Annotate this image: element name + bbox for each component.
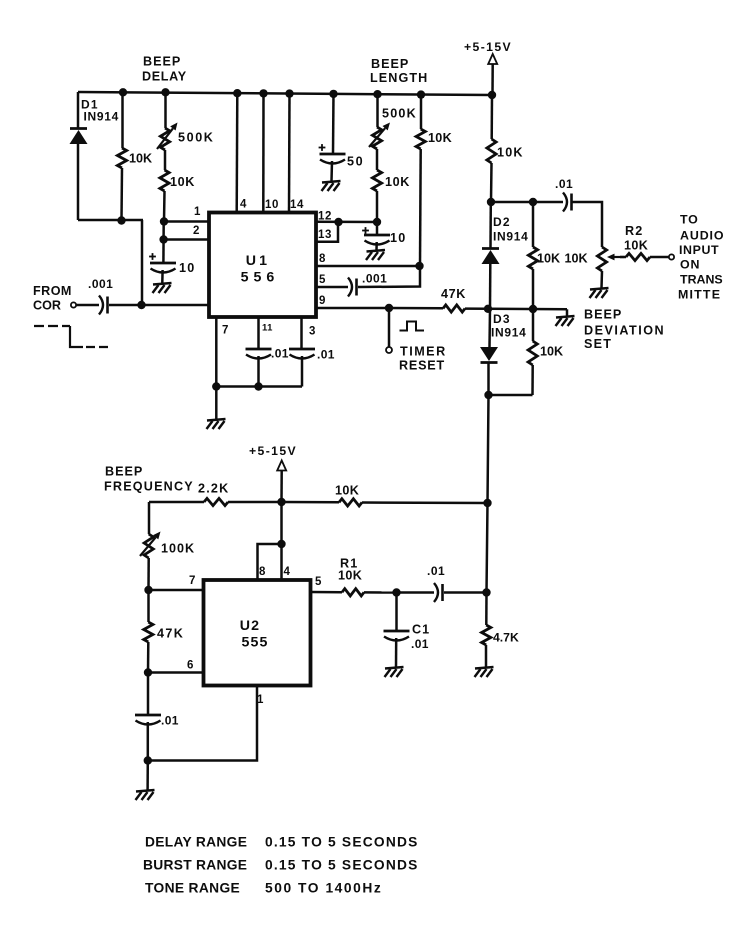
label pin 5 (U1) bbox=[319, 274, 326, 286]
label 2.2K bbox=[198, 482, 229, 496]
label 500K (delay) bbox=[178, 131, 215, 145]
svg-text:TRANS: TRANS bbox=[680, 273, 723, 287]
label 47K (U2) bbox=[157, 627, 184, 641]
label .001 (COR) bbox=[88, 277, 113, 291]
wire .01 pin3 to bus bbox=[301, 356, 304, 387]
capacitor 50uF bbox=[319, 144, 346, 163]
svg-text:C1: C1 bbox=[412, 623, 430, 637]
svg-text:555: 555 bbox=[241, 635, 268, 651]
svg-text:0.15 TO 5 SECONDS: 0.15 TO 5 SECONDS bbox=[265, 858, 419, 873]
wire timer reset stub bbox=[388, 308, 391, 347]
resistor 10K (from +5V) bbox=[487, 95, 496, 202]
potentiometer 500K (beep length) bbox=[369, 94, 390, 149]
wire cap to ground bbox=[161, 270, 164, 283]
label pin 5 (U2) bbox=[315, 576, 322, 588]
label TIMER bbox=[400, 345, 447, 359]
note DELAY RANGE bbox=[145, 835, 419, 850]
junction dot pin8 node bbox=[415, 262, 423, 270]
svg-text:DELAY RANGE: DELAY RANGE bbox=[145, 835, 247, 850]
capacitor .01 (pin 3) bbox=[289, 349, 315, 359]
junction dot divider bottom bbox=[529, 305, 537, 313]
label .01 (deviation) bbox=[555, 177, 573, 191]
junction dot pin1 node (U2) bbox=[144, 756, 152, 764]
wire pin 11 (U1) bbox=[257, 317, 260, 349]
svg-text:1: 1 bbox=[194, 206, 201, 218]
label 47K (pin9) bbox=[441, 287, 466, 301]
wire node B ground stub bbox=[566, 309, 569, 316]
svg-text:AUDIO: AUDIO bbox=[680, 229, 724, 243]
svg-text:2: 2 bbox=[193, 225, 199, 237]
ground (under 10uF right) bbox=[366, 250, 385, 260]
junction dot rail-10K right bbox=[417, 90, 425, 98]
svg-text:FREQUENCY: FREQUENCY bbox=[104, 480, 194, 494]
wire pin 1 bbox=[164, 220, 209, 223]
wire 100K to pin7 node bbox=[147, 558, 150, 590]
capacitor .001 (COR input) bbox=[99, 296, 108, 315]
ground (C1) bbox=[385, 667, 404, 677]
svg-text:11: 11 bbox=[262, 323, 273, 334]
terminal timer reset bbox=[386, 347, 392, 353]
wire main vertical bus bbox=[487, 395, 489, 593]
svg-text:MITTE: MITTE bbox=[678, 288, 721, 302]
resistor 47K (U2) bbox=[144, 590, 153, 673]
terminal to transmitter bbox=[669, 254, 674, 259]
wire node A to 10K pair bbox=[491, 201, 533, 204]
diode D1 bbox=[70, 92, 88, 220]
svg-text:10K: 10K bbox=[338, 569, 362, 583]
label pin 7 (U1) bbox=[222, 325, 228, 337]
svg-text:47K: 47K bbox=[441, 287, 466, 301]
capacitor 10uF (U1 right) bbox=[362, 227, 390, 244]
svg-text:10K: 10K bbox=[170, 175, 195, 189]
junction dot pin9-reset bbox=[385, 304, 393, 312]
potentiometer 500K (beep delay) bbox=[157, 92, 178, 150]
label pin 2 (U1) bbox=[193, 225, 199, 237]
wire node to 10uF (right) bbox=[376, 222, 379, 235]
junction dot pin1 node bbox=[160, 217, 168, 225]
svg-text:10K: 10K bbox=[497, 146, 524, 160]
resistor 10K (to main bus) bbox=[282, 499, 488, 506]
pulse waveform symbol bbox=[400, 322, 425, 331]
label pin 12 (U1) bbox=[318, 211, 332, 223]
op-amp U1 556 IC box bbox=[209, 213, 316, 318]
svg-text:12: 12 bbox=[318, 211, 332, 223]
resistor 4.7K bbox=[482, 593, 491, 668]
ground (node B) bbox=[556, 316, 575, 326]
svg-text:DELAY: DELAY bbox=[142, 70, 187, 84]
wire .01 to main bus bbox=[444, 591, 487, 594]
resistor 10K (delay, left) bbox=[117, 92, 126, 220]
svg-text:4: 4 bbox=[284, 566, 291, 578]
svg-text:IN914: IN914 bbox=[491, 326, 527, 340]
label .01 (output coupling) bbox=[427, 564, 445, 578]
svg-text:556: 556 bbox=[241, 270, 280, 286]
svg-text:10K: 10K bbox=[385, 175, 410, 189]
junction dot pin12 node bbox=[373, 218, 381, 226]
junction dot COR node bbox=[137, 301, 145, 309]
resistor 2.2K bbox=[149, 498, 282, 505]
wire C1 node down bbox=[395, 593, 398, 632]
op-amp U2 555 IC box bbox=[204, 580, 311, 686]
power +5-15V arrow terminal (bottom) bbox=[277, 461, 286, 503]
svg-text:IN914: IN914 bbox=[493, 230, 529, 244]
wire .01 to pin1 node bbox=[147, 722, 150, 761]
wire node B row bbox=[488, 308, 567, 311]
ground (under 10uF left) bbox=[153, 283, 172, 293]
capacitor .01 (U2 pin6) bbox=[135, 715, 161, 725]
label pin 1 (U1) bbox=[194, 206, 201, 218]
junction dot pin6 node (U2) bbox=[144, 668, 152, 676]
svg-text:U1: U1 bbox=[246, 253, 271, 269]
capacitor .01 (output coupling) bbox=[434, 583, 443, 602]
label pin 10 (U1) bbox=[265, 199, 279, 211]
label RESET bbox=[399, 359, 445, 373]
svg-text:6: 6 bbox=[187, 660, 193, 672]
resistor R1 10K bbox=[342, 589, 397, 596]
svg-text:5: 5 bbox=[319, 274, 326, 286]
wire .001 to pin8 node bbox=[358, 266, 420, 287]
svg-text:.001: .001 bbox=[362, 272, 387, 286]
label pin 1 (U2) bbox=[257, 694, 264, 706]
label pin 4 (U1) bbox=[240, 199, 247, 211]
label D2 1N914 bbox=[493, 230, 529, 244]
label R1 10K bbox=[338, 569, 362, 583]
wire pin 2 bbox=[164, 238, 209, 241]
wire pin 3 (U1) bbox=[300, 317, 303, 349]
junction dot pin4 node (U2) bbox=[277, 540, 285, 548]
svg-text:14: 14 bbox=[290, 199, 304, 211]
label FROM COR bbox=[33, 284, 72, 313]
svg-text:10K: 10K bbox=[540, 345, 563, 359]
junction dot rail-pin4 bbox=[233, 89, 241, 97]
junction dot rail-50uF bbox=[329, 90, 337, 98]
svg-text:BEEP: BEEP bbox=[143, 55, 181, 69]
svg-text:COR: COR bbox=[33, 299, 61, 313]
label D3 1N914 bbox=[491, 326, 527, 340]
note BURST RANGE bbox=[143, 858, 419, 873]
svg-text:13: 13 bbox=[318, 229, 332, 241]
svg-text:ON: ON bbox=[680, 258, 700, 272]
wire to .01 (deviation) bbox=[533, 201, 563, 204]
label 10 (uF cap right) bbox=[390, 231, 406, 245]
svg-text:BEEP: BEEP bbox=[105, 465, 143, 479]
label pin 6 (U2) bbox=[187, 660, 193, 672]
label 556 bbox=[241, 270, 280, 286]
capacitor .001 (pin5) bbox=[348, 278, 357, 297]
svg-text:IN914: IN914 bbox=[84, 110, 120, 124]
ground (U1 pin 7) bbox=[207, 419, 226, 429]
svg-text:.01: .01 bbox=[411, 637, 429, 651]
label R2 bbox=[625, 224, 644, 238]
svg-text:SET: SET bbox=[584, 337, 612, 351]
junction dot rail-10K bbox=[119, 88, 127, 96]
capacitor .01 (deviation coupling) bbox=[563, 193, 572, 212]
potentiometer wiper arrow (deviation) bbox=[607, 254, 624, 261]
label BEEP DELAY bbox=[142, 55, 187, 84]
power +5-15V arrow terminal (top) bbox=[488, 54, 497, 95]
resistor 10K (under 500K length) bbox=[372, 149, 381, 222]
wire pin7 to ground bbox=[215, 387, 218, 420]
junction dot bus-output bbox=[482, 588, 490, 596]
label D1 1N914 bbox=[84, 110, 120, 124]
label TO AUDIO INPUT ON TRANSMITTER bbox=[678, 213, 724, 302]
svg-text:2.2K: 2.2K bbox=[198, 482, 229, 496]
ground (under 50uF) bbox=[322, 181, 341, 191]
junction dot +5V node (bottom) bbox=[277, 498, 285, 506]
svg-text:U2: U2 bbox=[240, 618, 261, 634]
junction dot pin7 node (U2) bbox=[144, 586, 152, 594]
svg-text:TO: TO bbox=[680, 213, 699, 227]
wire C1 to ground bbox=[395, 638, 398, 667]
wire .01 to pot top bbox=[572, 202, 603, 247]
junction dot pin7 gnd bbox=[212, 382, 220, 390]
svg-text:500K: 500K bbox=[382, 107, 417, 121]
label 10K (deviation pot) bbox=[565, 252, 588, 266]
resistor 10K (beep length right) bbox=[416, 94, 425, 266]
svg-text:10: 10 bbox=[390, 231, 406, 245]
svg-text:.01: .01 bbox=[161, 714, 179, 728]
junction dot rail-pin10 bbox=[259, 89, 267, 97]
wire pin 7 (U1) bbox=[215, 317, 218, 387]
label 500K (length) bbox=[382, 107, 417, 121]
wire pin 14 (U1) bbox=[288, 93, 291, 212]
resistor 10K (deviation divider) bbox=[528, 202, 537, 309]
label pin 3 (U1) bbox=[309, 326, 315, 338]
svg-text:10K: 10K bbox=[428, 131, 452, 145]
svg-text:47K: 47K bbox=[157, 627, 184, 641]
label .01 (pin3) bbox=[317, 348, 335, 362]
label .001 (pin5) bbox=[362, 272, 387, 286]
svg-text:0.15 TO 5 SECONDS: 0.15 TO 5 SECONDS bbox=[265, 835, 419, 850]
ground (4.7K) bbox=[475, 667, 494, 677]
wire pin 7 (U2) bbox=[149, 589, 204, 592]
label 10K (under 500K length) bbox=[385, 175, 410, 189]
junction dot bus-10K bbox=[483, 499, 491, 507]
junction dot node B bbox=[484, 305, 492, 313]
label 100K bbox=[161, 542, 195, 556]
label pin 7 (U2) bbox=[189, 575, 195, 587]
label pin 8 (U2) bbox=[259, 566, 266, 578]
power +5-15V label (bottom) bbox=[249, 444, 297, 458]
resistor 10K (under 500K delay) bbox=[160, 150, 169, 222]
svg-text:TONE RANGE: TONE RANGE bbox=[145, 881, 240, 896]
svg-text:D2: D2 bbox=[493, 215, 511, 229]
wire pin1-pin2 link bbox=[162, 222, 165, 264]
svg-text:8: 8 bbox=[319, 253, 326, 265]
svg-text:500 TO 1400Hz: 500 TO 1400Hz bbox=[265, 881, 382, 896]
label 10K (below deviation) bbox=[540, 345, 563, 359]
svg-text:10K: 10K bbox=[335, 484, 359, 498]
label BEEP DEVIATION SET bbox=[584, 308, 665, 352]
label pin 8 (U1) bbox=[319, 253, 326, 265]
wire cap to U1 bbox=[109, 304, 209, 307]
note TONE RANGE bbox=[145, 881, 382, 896]
junction dot D3 bottom bbox=[484, 391, 492, 399]
svg-text:+5-15V: +5-15V bbox=[464, 40, 512, 54]
svg-text:7: 7 bbox=[189, 575, 195, 587]
junction dot rail-pin14 bbox=[285, 89, 293, 97]
label 10 (uF cap left) bbox=[179, 261, 195, 275]
label R2 10K bbox=[624, 239, 648, 253]
svg-text:D3: D3 bbox=[493, 312, 511, 326]
capacitor .01 (pin 11) bbox=[246, 349, 272, 359]
label .01 (pin11) bbox=[271, 347, 289, 361]
wire rail to 50uF bbox=[332, 93, 335, 154]
label 555 bbox=[241, 635, 268, 651]
svg-text:9: 9 bbox=[319, 295, 325, 307]
svg-text:FROM: FROM bbox=[33, 284, 72, 298]
wire pin 10 (U1) bbox=[262, 93, 265, 212]
capacitor C1 .01 bbox=[384, 631, 410, 641]
svg-text:INPUT: INPUT bbox=[679, 243, 719, 257]
label 10K (delay left) bbox=[129, 152, 152, 166]
wire pin 9 (U1) bbox=[316, 307, 389, 310]
label 10K (under 500K delay) bbox=[170, 175, 195, 189]
svg-text:.01: .01 bbox=[427, 564, 445, 578]
svg-text:.01: .01 bbox=[271, 347, 289, 361]
svg-text:.01: .01 bbox=[555, 177, 573, 191]
diode D3 bbox=[480, 309, 498, 395]
capacitor 10uF (timing, U1 left) bbox=[149, 253, 176, 272]
svg-text:R2: R2 bbox=[625, 224, 644, 238]
svg-text:10: 10 bbox=[265, 199, 279, 211]
junction dot rail-500K delay bbox=[161, 88, 169, 96]
svg-text:500K: 500K bbox=[178, 131, 215, 145]
wire COR to cap bbox=[76, 304, 99, 307]
label U2 bbox=[240, 618, 261, 634]
svg-text:8: 8 bbox=[259, 566, 266, 578]
label D2 bbox=[493, 215, 511, 229]
svg-text:BEEP: BEEP bbox=[584, 308, 622, 322]
wire pin 4 (U2) bbox=[280, 502, 283, 580]
label 10K (bottom) bbox=[335, 484, 359, 498]
wire pin 13 loop (U1) bbox=[316, 222, 338, 242]
junction dot pin11 gnd bbox=[254, 382, 262, 390]
wire 10uF to ground bbox=[375, 242, 378, 250]
svg-text:100K: 100K bbox=[161, 542, 195, 556]
junction dot pins 12-13 tie bbox=[334, 218, 342, 226]
label R1 bbox=[340, 557, 359, 571]
svg-text:BEEP: BEEP bbox=[371, 57, 409, 71]
svg-text:RESET: RESET bbox=[399, 359, 445, 373]
svg-text:DEVIATION: DEVIATION bbox=[584, 324, 665, 338]
svg-text:BURST RANGE: BURST RANGE bbox=[143, 858, 247, 873]
label pin 9 (U1) bbox=[319, 295, 325, 307]
svg-text:LENGTH: LENGTH bbox=[370, 71, 428, 85]
svg-text:5: 5 bbox=[315, 576, 322, 588]
wire pin 5 (U1) bbox=[316, 286, 348, 289]
wire pin1 node to ground bbox=[146, 761, 149, 791]
wire C1 node to .01 bbox=[397, 591, 435, 594]
wire pin 8 (U1) bbox=[316, 265, 420, 268]
label pin 11 (U1) bbox=[262, 323, 273, 334]
wire top supply rail bbox=[78, 92, 492, 95]
label pin 4 (U2) bbox=[284, 566, 291, 578]
label pin 14 (U1) bbox=[290, 199, 304, 211]
label U1 bbox=[246, 253, 271, 269]
svg-text:10: 10 bbox=[179, 261, 195, 275]
label .01 (U2 pin6) bbox=[161, 714, 179, 728]
resistor 47K (pin9) bbox=[389, 305, 488, 312]
svg-text:50: 50 bbox=[347, 155, 364, 169]
power +5-15V label (top) bbox=[464, 40, 512, 54]
wire pin 1 (U2) bbox=[148, 686, 257, 761]
label 4.7K bbox=[493, 631, 519, 645]
svg-text:3: 3 bbox=[309, 326, 315, 338]
junction dot 10K/D1 wire bbox=[117, 216, 125, 224]
svg-text:10K: 10K bbox=[129, 152, 152, 166]
label 50 (uF) bbox=[347, 155, 364, 169]
wire D3-10K join bbox=[489, 394, 533, 397]
svg-text:1: 1 bbox=[257, 694, 264, 706]
wire pin 12 (U1) bbox=[316, 221, 377, 224]
junction dot rail-500K length bbox=[373, 90, 381, 98]
svg-text:4.7K: 4.7K bbox=[493, 631, 519, 645]
ground (U2 pin1) bbox=[136, 790, 155, 800]
terminal FROM COR bbox=[71, 302, 76, 307]
svg-text:+5-15V: +5-15V bbox=[249, 444, 297, 458]
waveform COR step bbox=[34, 326, 108, 347]
wire pin 8 loop (U2) bbox=[258, 544, 282, 580]
label 10K (length right) bbox=[428, 131, 452, 145]
svg-text:.001: .001 bbox=[88, 277, 113, 291]
label 10K (divider) bbox=[537, 252, 560, 266]
junction dot rail-+5V bbox=[488, 91, 496, 99]
wire .01 pin11 to bus bbox=[257, 356, 260, 387]
junction dot pin2 node bbox=[159, 235, 167, 243]
wire pin6 node to .01 bbox=[147, 673, 150, 716]
label D3 bbox=[493, 312, 511, 326]
label BEEP FREQUENCY bbox=[104, 465, 194, 494]
svg-text:7: 7 bbox=[222, 325, 228, 337]
resistor R2 10K bbox=[620, 253, 669, 260]
potentiometer 100K (beep frequency) bbox=[140, 502, 161, 558]
svg-text:10K: 10K bbox=[624, 239, 648, 253]
svg-text:10K: 10K bbox=[565, 252, 588, 266]
svg-text:.01: .01 bbox=[317, 348, 335, 362]
junction dot C1 node bbox=[392, 588, 400, 596]
wire pin 5 (U2) bbox=[311, 591, 343, 594]
resistor 10K (below deviation) bbox=[528, 309, 537, 395]
wire pin 4 (U1) bbox=[235, 93, 238, 212]
wire D1 anode to COR node bbox=[78, 220, 143, 305]
wire U1 ground bus bbox=[216, 385, 302, 388]
label BEEP LENGTH bbox=[370, 57, 428, 85]
label C1 bbox=[412, 623, 430, 637]
wire 50uF to ground bbox=[330, 161, 333, 181]
ground (deviation pot) bbox=[590, 288, 609, 298]
junction dot 10K pair top bbox=[529, 198, 537, 206]
label 10K (+5V) bbox=[497, 146, 524, 160]
wire pin 6 (U2) bbox=[148, 671, 203, 674]
label C1 .01 bbox=[411, 637, 429, 651]
label pin 13 (U1) bbox=[318, 229, 332, 241]
diode D2 bbox=[482, 202, 500, 309]
svg-text:TIMER: TIMER bbox=[400, 345, 447, 359]
junction dot node A bbox=[487, 198, 495, 206]
svg-text:4: 4 bbox=[240, 199, 247, 211]
svg-text:10K: 10K bbox=[537, 252, 560, 266]
potentiometer 10K (deviation set) bbox=[597, 247, 606, 288]
label D1 bbox=[81, 98, 99, 112]
